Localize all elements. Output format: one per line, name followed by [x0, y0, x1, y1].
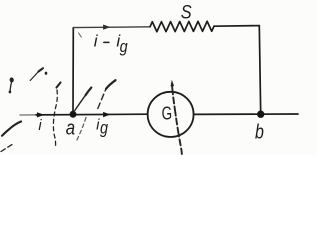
pencil squiggle long dashed tail crossing wire: [53, 90, 57, 147]
pencil flick mark left thin part: [30, 72, 38, 81]
wire galvanometer through node b to right end: [194, 113, 298, 115]
pencil comma stroke bottom-left: [2, 122, 21, 136]
galvanometer G circle: [148, 92, 194, 137]
node b junction dot: [257, 111, 264, 118]
wire top segment corner to resistor: [73, 26, 150, 29]
wire left vertical from node a to top-left corner: [72, 28, 74, 115]
pencil diagonal right of node a: dashed thin part: [98, 89, 106, 109]
pencil squiggle flick head: [57, 83, 61, 88]
svg-text:i: i: [94, 32, 99, 51]
label i - ig: minus stroke: [104, 41, 109, 43]
pencil note-like mark far left: bottom dot: [9, 90, 12, 93]
resistor S zigzag: [150, 21, 214, 31]
arrow current i on left wire: [37, 112, 44, 117]
pencil diagonal right of node a: thick hooked head: [106, 80, 116, 89]
svg-text:g: g: [120, 38, 128, 56]
pencil faint tick near i-ig label: [79, 33, 82, 37]
pencil diagonal from node a: thick hooked head: [86, 88, 92, 96]
svg-text:S: S: [181, 1, 192, 23]
svg-text:b: b: [255, 121, 264, 143]
pencil tiny dot right of left flick: [45, 72, 48, 75]
galvanometer needle dashed stroke through G: [172, 86, 182, 155]
svg-text:i: i: [38, 118, 42, 134]
wire right vertical corner down to node b: [259, 26, 260, 115]
svg-text:G: G: [162, 103, 173, 124]
pencil dash bottom-left corner: [1, 145, 12, 152]
pencil flick mark left thick head: [39, 68, 44, 71]
arrow current ig right of node a: [103, 112, 110, 117]
svg-text:g: g: [100, 118, 108, 138]
svg-text:a: a: [66, 116, 75, 139]
pencil faint dashed stroke below wire right of a: [77, 118, 86, 141]
wire resistor to top-right corner: [214, 25, 259, 28]
pencil note-like mark far left: tail: [10, 83, 11, 91]
galvanometer needle arrowhead at top: [171, 80, 175, 87]
pencil diagonal from node a: thin part: [75, 95, 86, 110]
pencil note-like mark far left: head blob: [9, 77, 14, 83]
arrow current i-ig on top wire: [103, 25, 110, 30]
node a junction dot: [70, 111, 77, 118]
wire bottom-left segment to galvanometer: [20, 114, 36, 116]
